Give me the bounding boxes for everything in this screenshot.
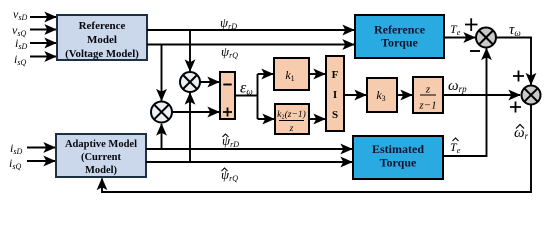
svg-text:(Voltage Model): (Voltage Model) — [65, 48, 139, 60]
wire v_sD into reference model — [30, 16, 56, 18]
sign plus S2 top — [513, 71, 524, 82]
wire drop psi_rD into multiplier M1 — [189, 30, 191, 71]
svg-text:isD: isD — [10, 141, 22, 156]
sign plus S1 — [465, 18, 478, 31]
wire riser psihat_rD into multiplier M2 — [161, 124, 163, 149]
wire psi_rD to reference torque — [147, 29, 354, 31]
summing S1 — [476, 28, 496, 48]
svg-text:Adaptive Model: Adaptive Model — [65, 139, 137, 150]
multiplier M1 — [180, 72, 200, 92]
block z/(z-1) — [413, 77, 443, 113]
sign plus S2 bottom — [510, 102, 521, 113]
wire M2 output into summing plus — [172, 111, 219, 113]
wire drop psi_rQ into multiplier M2 — [161, 45, 163, 101]
svg-text:ωrp: ωrp — [448, 78, 467, 94]
wire omega_rp into summing S2 — [443, 94, 520, 96]
wire tau from S1 to S2 — [496, 38, 531, 85]
block k1 — [274, 58, 309, 90]
summing S2 — [522, 86, 541, 105]
block FIS — [326, 56, 344, 131]
svg-text:isQ: isQ — [9, 156, 21, 171]
wire error output — [235, 95, 258, 97]
wire riser psihat_rQ into multiplier M1 — [189, 93, 191, 162]
svg-text:isQ: isQ — [14, 52, 26, 67]
wire into k1 — [258, 73, 274, 75]
wire i_sD into reference model — [30, 42, 56, 44]
svg-text:I: I — [333, 89, 337, 101]
wire psihat_rD to estimated torque — [146, 148, 352, 150]
wire T_e into summing S1 — [444, 37, 475, 39]
svg-text:isD: isD — [15, 36, 27, 51]
block k3 — [367, 78, 397, 112]
sign minus S1 — [470, 50, 480, 52]
block Adaptive Model (Current Model) — [56, 134, 146, 177]
wire i_sD into adaptive model — [27, 147, 55, 149]
wire That_e from estimated torque up into S1 — [443, 49, 487, 157]
svg-text:Torque: Torque — [381, 36, 418, 50]
svg-text:ωr: ωr — [514, 125, 529, 141]
svg-text:Estimated: Estimated — [372, 142, 424, 156]
wire omega_hat feedback to adaptive model — [102, 105, 531, 193]
wire split vertical — [257, 74, 259, 119]
wire k2 into FIS — [309, 118, 325, 120]
svg-text:ψrQ: ψrQ — [221, 44, 238, 60]
multiplier M2 — [151, 102, 172, 123]
wire into k2 block — [258, 118, 275, 120]
svg-text:Reference: Reference — [79, 20, 126, 32]
summing block (minus/plus) — [220, 72, 235, 119]
wire psi_rQ to reference torque — [147, 44, 354, 46]
svg-text:Reference: Reference — [374, 23, 426, 37]
svg-text:τω: τω — [509, 22, 521, 38]
svg-text:S: S — [332, 109, 338, 121]
wire FIS into k3 — [344, 94, 366, 96]
wire v_sQ into reference model — [30, 29, 56, 31]
svg-text:εω: εω — [240, 80, 253, 97]
svg-text:Torque: Torque — [380, 156, 417, 170]
svg-text:Model: Model — [87, 34, 117, 46]
svg-text:F: F — [332, 69, 339, 81]
wire k1 into FIS — [309, 73, 325, 75]
svg-text:(Current: (Current — [81, 152, 122, 163]
wire M1 output into summing minus — [200, 81, 219, 83]
svg-text:z: z — [425, 84, 431, 96]
block Reference Torque — [355, 15, 444, 58]
svg-text:ψrD: ψrD — [220, 15, 237, 31]
wire i_sQ into reference model — [30, 56, 56, 58]
svg-text:z−1: z−1 — [418, 100, 436, 112]
svg-text:Te: Te — [450, 22, 461, 37]
svg-text:Te: Te — [450, 140, 461, 155]
wire i_sQ into adaptive model — [27, 160, 55, 162]
block Reference Model (Voltage Model) — [57, 15, 147, 60]
svg-text:z: z — [289, 124, 294, 134]
svg-text:vsD: vsD — [13, 7, 27, 22]
wire psihat_rQ to estimated torque — [146, 161, 352, 163]
svg-text:Model): Model) — [85, 165, 118, 176]
block Estimated Torque — [353, 136, 443, 179]
wire k3 into z/(z-1) — [397, 94, 412, 96]
block k2(z-1)/z — [275, 104, 309, 134]
